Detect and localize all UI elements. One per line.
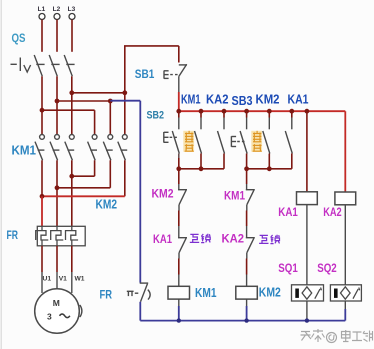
proximity switch SQ2 (330, 285, 361, 301)
wire L2 to QS (56, 20, 58, 52)
lead into motor U1 (41, 272, 43, 293)
node bus SB3 (244, 109, 249, 114)
node join KM2 (267, 166, 272, 171)
motor M (35, 289, 80, 334)
coil KM1 (168, 286, 190, 299)
wire SQ2 to bottom (344, 301, 346, 311)
proximity switch SQ1 (292, 285, 324, 301)
wire FR to motor U1 (41, 246, 43, 272)
node bus KA1 (289, 109, 294, 114)
lead into motor V1 (56, 272, 58, 289)
node bottom KM1 (177, 318, 181, 322)
node bus SB2 (176, 109, 181, 114)
wire KA1 coil branch (306, 111, 308, 192)
pushbutton SB2 NO (164, 111, 180, 169)
wire SB1 bottom (178, 77, 180, 92)
wire control top (124, 45, 179, 47)
terminal L1 (39, 14, 45, 20)
svg-text:KM2: KM2 (259, 286, 281, 300)
wire blue left drop (139, 101, 141, 283)
terminal L2 (54, 14, 60, 20)
node bottom KM2 (244, 318, 248, 322)
aux contact KM2 NO (263, 111, 270, 169)
contactor KM2 pole1 (88, 135, 97, 161)
node bottom SQ1 (305, 318, 309, 322)
wire right group join (247, 168, 292, 170)
FR heater element 3 (66, 226, 79, 246)
wire SB1 top (178, 46, 180, 63)
wire KM2 pole1 drop (94, 110, 96, 134)
svg-text:SB3: SB3 (232, 93, 253, 108)
wire KM2 coil to bottom (246, 299, 248, 306)
wire KM2 pole3 out (124, 160, 126, 196)
svg-text:KM1: KM1 (181, 92, 201, 107)
wire SQ1 to bottom (306, 301, 308, 321)
wire phase C below KM1 (71, 160, 73, 226)
thermal overload FR box (37, 226, 85, 246)
thermal contact FR NC (127, 283, 150, 302)
wire phase B QS to KM1 (56, 76, 58, 134)
svg-text:SQ2: SQ2 (317, 261, 337, 275)
coil KA2 (335, 192, 356, 205)
wire KM2 pole1 out (94, 160, 96, 176)
wire KM2 pole2 out (109, 160, 111, 188)
motor shaft bump (80, 305, 82, 317)
wire SB1 to bus (178, 92, 180, 111)
watermark (301, 329, 373, 344)
svg-text:SB2: SB2 (147, 110, 165, 122)
wire KM2 pole1 join (72, 175, 95, 177)
wire KM1 coil to bottom (178, 299, 180, 306)
aux contact KA2 NO (218, 111, 225, 169)
pushbutton SB1 NC (164, 64, 187, 78)
node bus KM1 (199, 109, 204, 114)
contactor KM2 pole2 (103, 135, 112, 161)
svg-text:M: M (53, 298, 60, 308)
wire L3 to QS (71, 20, 73, 52)
node join KM1 (199, 166, 204, 171)
FR heater element 1 (36, 226, 49, 246)
label interlock right (259, 235, 279, 244)
svg-text:L3: L3 (68, 6, 76, 13)
wire control tap riser (124, 46, 126, 93)
svg-text:W1: W1 (75, 276, 85, 283)
node bus KM2 (267, 109, 272, 114)
svg-text:FR: FR (100, 290, 113, 302)
wire KM2 pole3 drop (124, 93, 126, 135)
wire bus end drop (344, 111, 346, 192)
node join A (40, 194, 45, 199)
FR heater element 2 (51, 226, 64, 246)
wire phase A below KM1 (41, 160, 43, 196)
node join SB3 (244, 166, 249, 171)
node control tap L (122, 90, 127, 95)
node blue tap (108, 99, 113, 104)
control bus (179, 110, 345, 112)
motor tilde (60, 314, 70, 318)
svg-text:L2: L2 (53, 6, 61, 13)
left border line (1, 0, 2, 349)
wire KA2 coil to SQ2 (344, 205, 346, 285)
annotation self-lock left (183, 131, 194, 152)
node phase A tap (40, 108, 45, 113)
svg-text:L1: L1 (38, 6, 46, 13)
wire phase C to KM2 pole3 feed (72, 92, 125, 94)
svg-text:KA2: KA2 (222, 232, 245, 246)
svg-text:KA2: KA2 (323, 205, 342, 219)
node join SB2 (176, 166, 181, 171)
svg-text:KM1: KM1 (224, 189, 245, 203)
svg-text:KM2: KM2 (256, 92, 280, 107)
aux contact KA1 NO (285, 111, 292, 169)
terminal L3 (69, 14, 75, 20)
wire FR to motor V1 (56, 246, 58, 272)
interlock contact KM2 NC (178, 169, 187, 226)
wire FR NC to bottom line (139, 302, 141, 321)
wire KA1 coil to SQ1 (306, 205, 308, 285)
label interlock left (190, 234, 210, 243)
aux contact KM1 NO (195, 111, 202, 169)
node phase C tap (69, 90, 74, 95)
interlock contact KM1 NC (246, 169, 255, 226)
control bottom line (140, 320, 345, 322)
pushbutton SB3 NO (231, 111, 247, 169)
svg-text:U1: U1 (43, 276, 52, 283)
wire phase B below KM1 (56, 160, 58, 226)
wire FR to motor W1 (71, 246, 73, 272)
node bus KA2 (222, 109, 227, 114)
svg-text:KA2: KA2 (206, 92, 229, 107)
svg-text:KM2: KM2 (96, 197, 118, 212)
svg-text:3: 3 (47, 312, 52, 322)
wire L1 to QS (41, 20, 43, 52)
wire KM2 pole3 join red (42, 195, 125, 197)
lead into motor W1 (71, 272, 73, 293)
contactor KM2 pole3 (118, 135, 127, 161)
coil KM2 (236, 286, 257, 299)
node join B (55, 185, 60, 190)
wire KM2 pole2 join (57, 187, 110, 189)
svg-text:KA1: KA1 (278, 205, 298, 219)
svg-text:KM2: KM2 (152, 187, 174, 201)
svg-text:SB1: SB1 (135, 69, 155, 81)
svg-text:V1: V1 (59, 276, 67, 283)
svg-text:FR: FR (7, 230, 19, 242)
node join C (69, 174, 74, 179)
svg-text:KM1: KM1 (12, 143, 37, 158)
wire phase B to KM2 pole2 feed (57, 100, 110, 102)
contactor KM1 pole3 (65, 135, 74, 161)
interlock contact KA1 NC (178, 226, 187, 286)
wire KM2 pole2 drop (109, 101, 111, 135)
svg-text:KM1: KM1 (195, 286, 217, 300)
svg-text:KA1: KA1 (288, 92, 309, 107)
coil KA1 (297, 192, 318, 205)
contactor KM1 pole2 (50, 135, 59, 161)
svg-text:QS: QS (12, 31, 26, 45)
svg-text:SQ1: SQ1 (278, 261, 298, 275)
wire left group join (179, 168, 224, 170)
node bus KA1coil (305, 109, 310, 114)
node phase B tap (55, 99, 60, 104)
svg-text:KA1: KA1 (153, 232, 172, 246)
wire phase A to FR (41, 196, 43, 226)
contactor KM1 pole1 (35, 135, 44, 161)
annotation self-lock right (251, 131, 262, 152)
wire phase A QS to KM1 (41, 76, 43, 134)
disconnect switch QS (11, 55, 75, 76)
interlock contact KA2 NC (246, 226, 255, 286)
wire phase A to KM2 pole1 feed (42, 109, 95, 111)
wire blue control tap (110, 100, 140, 102)
wire phase C QS to KM1 (71, 76, 73, 134)
